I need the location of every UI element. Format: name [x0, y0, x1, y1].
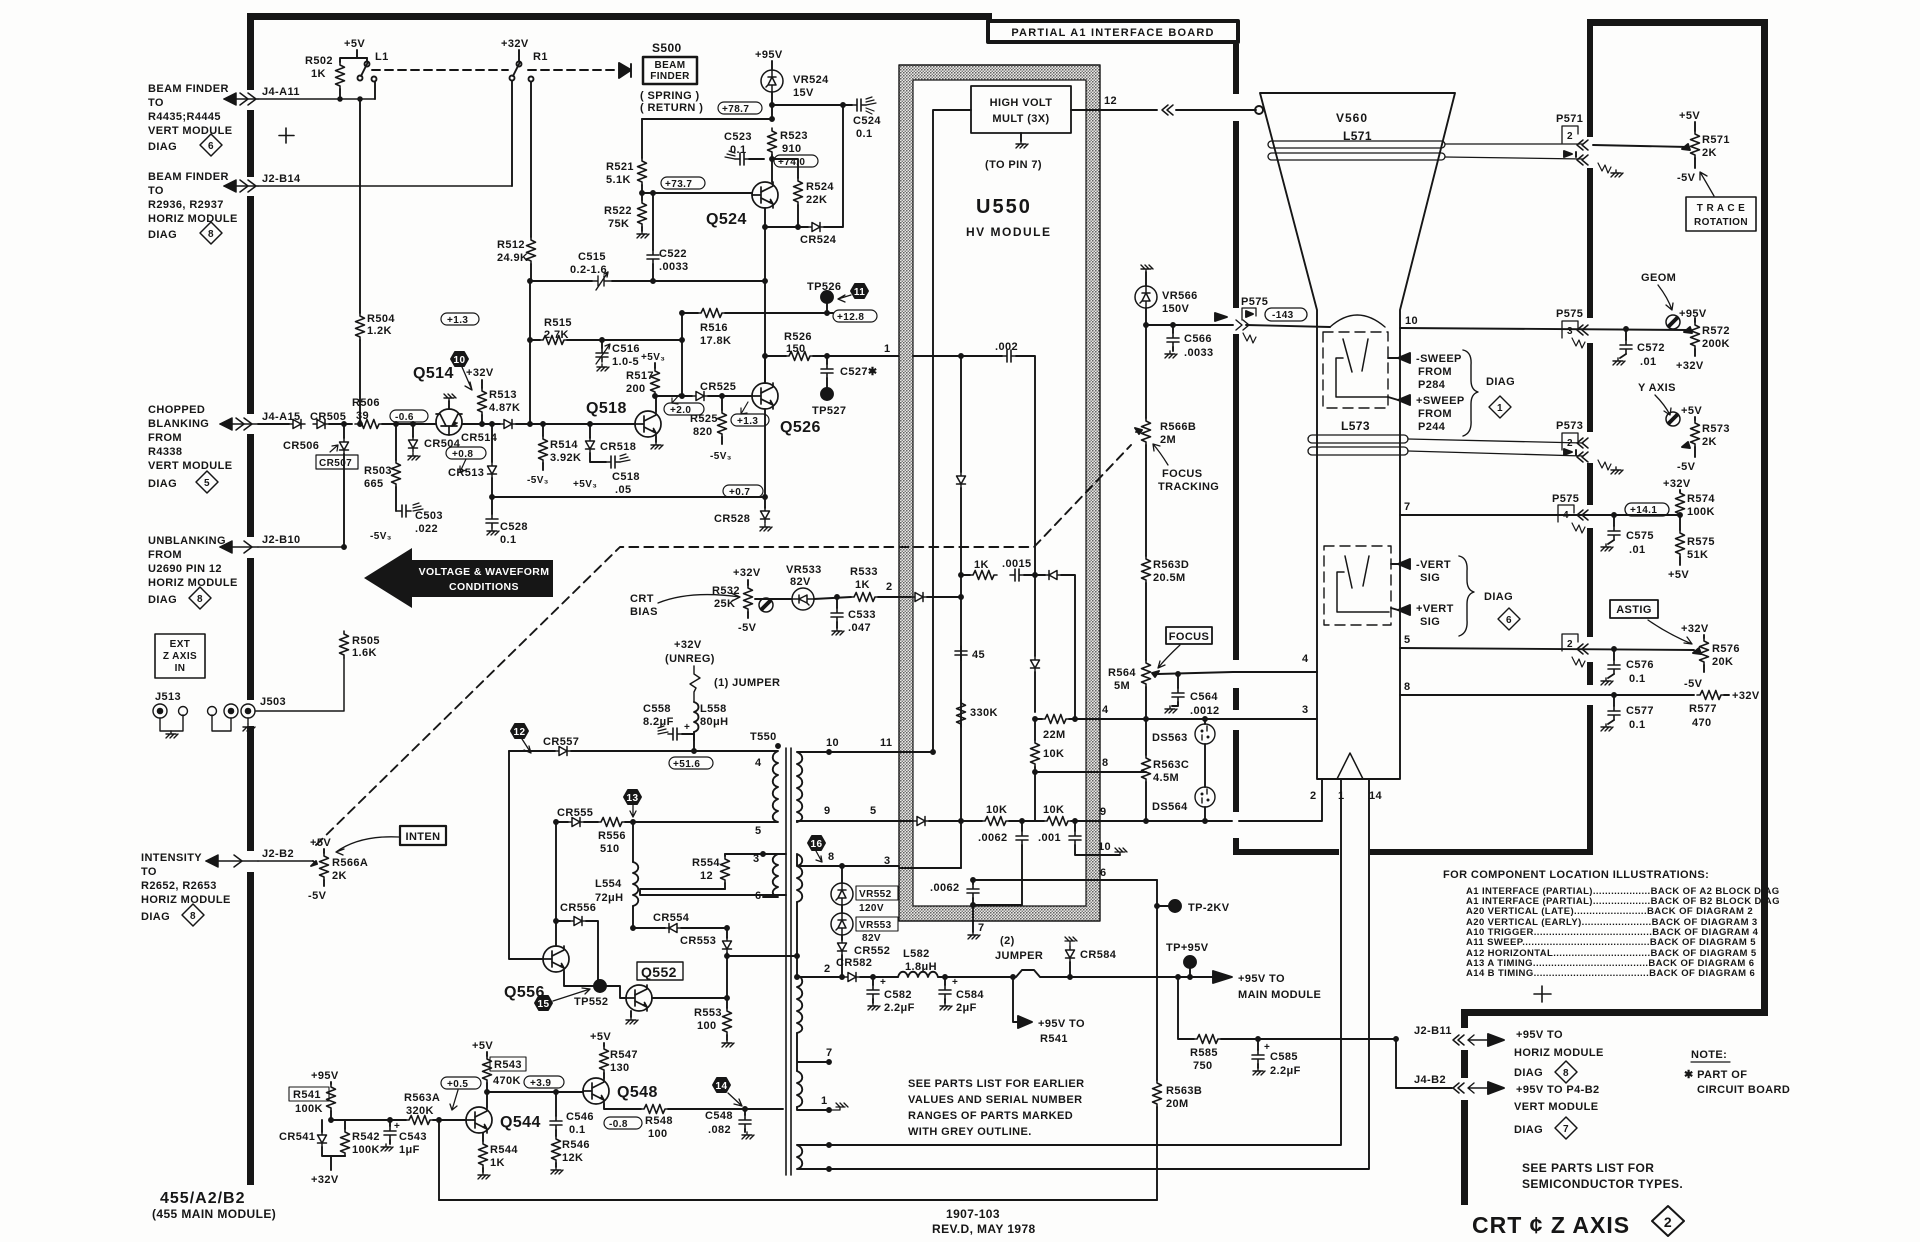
svg-text:-5V: -5V — [738, 622, 757, 634]
voltage oval +12.8 — [827, 310, 877, 323]
transistor Q544 — [466, 1107, 541, 1133]
svg-text:VALUES AND SERIAL NUMBER: VALUES AND SERIAL NUMBER — [908, 1094, 1082, 1106]
resistor R514 3.92K — [527, 422, 581, 486]
svg-text:A11 SWEEP.....................: A11 SWEEP...............................… — [1466, 937, 1756, 948]
diode into U550 pin 2 — [911, 593, 963, 602]
svg-text:R522: R522 — [604, 205, 632, 217]
svg-text:2: 2 — [886, 581, 893, 593]
svg-text:P575: P575 — [1241, 296, 1268, 308]
svg-text:REV.D, MAY 1978: REV.D, MAY 1978 — [932, 1222, 1036, 1236]
svg-text:PARTIAL A1 INTERFACE BOARD: PARTIAL A1 INTERFACE BOARD — [1011, 27, 1214, 39]
label box TRACE ROTATION — [1686, 172, 1756, 231]
resistor R522 75K — [604, 200, 649, 238]
svg-text:8.2μF: 8.2μF — [643, 716, 674, 728]
svg-text:TP526: TP526 — [807, 281, 841, 293]
svg-text:5M: 5M — [1114, 680, 1130, 692]
svg-text:SIG: SIG — [1420, 616, 1440, 628]
switch L1 — [358, 51, 389, 99]
resistor 330K — [957, 700, 998, 727]
svg-text:DIAG: DIAG — [1514, 1124, 1543, 1136]
svg-text:ASTIG: ASTIG — [1616, 604, 1652, 616]
svg-text:+5V₃: +5V₃ — [573, 479, 597, 490]
voltage oval +1.3 — [731, 402, 769, 427]
interior wire from HV mult left — [931, 110, 971, 754]
svg-text:.0033: .0033 — [659, 261, 689, 273]
diode CR553 — [680, 928, 732, 1008]
svg-text:0.1: 0.1 — [569, 1124, 586, 1136]
svg-text:470: 470 — [1692, 717, 1712, 729]
board edge: CRT area left bar segment 5 — [1233, 730, 1239, 812]
svg-text:CR507: CR507 — [319, 458, 352, 469]
svg-text:R4435;R4445: R4435;R4445 — [148, 111, 221, 123]
svg-text:+SWEEP: +SWEEP — [1416, 395, 1465, 407]
svg-text:100: 100 — [648, 1128, 668, 1140]
svg-text:100K: 100K — [295, 1103, 323, 1115]
svg-text:J2-B14: J2-B14 — [262, 173, 301, 185]
label box EXT Z AXIS IN — [155, 634, 205, 678]
diode CR555 — [556, 807, 598, 827]
capacitor .0062 b with ground pin 7 — [930, 880, 985, 939]
voltage oval +73.7 — [661, 177, 705, 190]
svg-text:.0015: .0015 — [1002, 558, 1032, 570]
wire J2-B2 to R566A — [258, 860, 313, 862]
svg-text:SEE PARTS LIST FOR EARLIER: SEE PARTS LIST FOR EARLIER — [908, 1078, 1084, 1090]
svg-text:VR566: VR566 — [1162, 290, 1198, 302]
svg-text:R571: R571 — [1702, 134, 1730, 146]
svg-text:1: 1 — [884, 343, 891, 355]
svg-text:R523: R523 — [780, 130, 808, 142]
arrows to vert sig labels — [1391, 556, 1520, 636]
svg-text:R566A: R566A — [332, 857, 368, 869]
svg-text:.001: .001 — [1038, 832, 1061, 844]
wire TP526 node down to R526 row — [826, 313, 828, 356]
svg-text:VERT MODULE: VERT MODULE — [148, 460, 232, 472]
svg-text:+51.6: +51.6 — [673, 759, 700, 770]
svg-text:T550: T550 — [750, 731, 777, 743]
svg-text:GEOM: GEOM — [1641, 272, 1676, 284]
svg-text:J4-B2: J4-B2 — [1414, 1074, 1446, 1086]
svg-text:R515: R515 — [544, 317, 572, 329]
svg-text:Q548: Q548 — [617, 1084, 658, 1101]
svg-text:2K: 2K — [332, 870, 347, 882]
svg-text:WITH GREY OUTLINE.: WITH GREY OUTLINE. — [908, 1126, 1032, 1138]
diode CR552 — [838, 935, 891, 979]
voltage oval +78.7 — [718, 102, 762, 115]
voltage oval +0.5 — [441, 1077, 481, 1110]
svg-text:BEAM FINDER: BEAM FINDER — [148, 171, 229, 183]
callout hex 10 — [451, 352, 472, 390]
svg-text:2.7K: 2.7K — [544, 329, 569, 341]
svg-text:-SWEEP: -SWEEP — [1416, 353, 1462, 365]
svg-text:0.1: 0.1 — [1629, 673, 1646, 685]
label: CHOPPED BLANKING FROM R4338 VERT MODULE — [148, 404, 232, 490]
capacitor C516 1.0-5 (variable) — [596, 340, 640, 371]
svg-text:0.1: 0.1 — [1629, 719, 1646, 731]
wire J4-A15 row — [258, 423, 289, 425]
svg-text:T R A C E: T R A C E — [1697, 203, 1745, 214]
svg-text:P571: P571 — [1556, 113, 1583, 125]
svg-text:2M: 2M — [1160, 434, 1176, 446]
svg-text:+95V TO: +95V TO — [1238, 973, 1285, 985]
registration cross bottom right — [1534, 986, 1551, 1002]
svg-text:CR555: CR555 — [557, 807, 593, 819]
svg-text:320K: 320K — [406, 1105, 434, 1117]
svg-text:HV MODULE: HV MODULE — [966, 225, 1052, 239]
capacitor C527 and TP527 — [812, 356, 878, 417]
svg-text:FOCUS: FOCUS — [1162, 468, 1203, 480]
svg-text:+32V: +32V — [501, 38, 529, 50]
svg-text:TO: TO — [148, 185, 164, 197]
label Y AXIS — [1638, 382, 1676, 415]
label: UNBLANKING FROM U2690 PIN 12 HORIZ MODULE — [148, 535, 238, 606]
capacitor C584 2uF — [939, 977, 984, 1014]
svg-text:+5V₃: +5V₃ — [641, 352, 665, 363]
resistor R577 470 — [1689, 690, 1760, 729]
svg-text:CR525: CR525 — [700, 381, 736, 393]
svg-text:R542: R542 — [352, 1131, 380, 1143]
svg-text:1K: 1K — [855, 579, 870, 591]
note SEE PARTS LIST FOR SEMICONDUCTOR TYPES — [1522, 1161, 1683, 1191]
voltage oval +14.1 — [1625, 503, 1669, 516]
svg-text:20K: 20K — [1712, 656, 1733, 668]
svg-text:L582: L582 — [903, 948, 930, 960]
svg-text:25K: 25K — [714, 598, 735, 610]
svg-text:P244: P244 — [1418, 421, 1446, 433]
wire +78.7 row — [642, 118, 772, 120]
resistor R541 100K (grey outline) — [289, 1070, 339, 1122]
svg-text:8: 8 — [208, 229, 214, 240]
svg-text:VOLTAGE & WAVEFORM: VOLTAGE & WAVEFORM — [419, 566, 550, 578]
resistor R512 24.9K — [497, 237, 536, 424]
wire CRT pin 2 to bias row — [1239, 779, 1322, 821]
svg-text:R563D: R563D — [1153, 559, 1189, 571]
wire x682 vertical — [681, 313, 683, 396]
svg-text:+78.7: +78.7 — [722, 104, 749, 115]
svg-text:C575: C575 — [1626, 530, 1654, 542]
svg-text:-VERT: -VERT — [1416, 559, 1451, 571]
capacitor C528 0.1 — [486, 495, 528, 546]
svg-text:U2690 PIN 12: U2690 PIN 12 — [148, 563, 222, 575]
svg-text:R1: R1 — [533, 51, 548, 63]
svg-text:HORIZ MODULE: HORIZ MODULE — [141, 894, 231, 906]
svg-text:R512: R512 — [497, 239, 525, 251]
capacitor C524 0.1 — [772, 97, 881, 140]
resistor R563A 320K — [404, 1092, 466, 1125]
svg-text:V560: V560 — [1336, 111, 1368, 125]
svg-text:20.5M: 20.5M — [1153, 572, 1186, 584]
voltage oval +0.7 — [723, 485, 763, 498]
switch R1 — [501, 38, 548, 82]
diamond diag 8 right — [1555, 1061, 1577, 1083]
svg-text:1907-103: 1907-103 — [946, 1207, 1000, 1221]
svg-text:9: 9 — [1100, 806, 1107, 818]
svg-text:.0012: .0012 — [1190, 705, 1220, 717]
svg-text:.0062: .0062 — [930, 882, 960, 894]
resistor R525 820 — [690, 396, 732, 462]
svg-text:L554: L554 — [595, 878, 622, 890]
svg-text:C546: C546 — [566, 1111, 594, 1123]
diamond diag 6 — [200, 134, 222, 156]
connector J4-B2 — [1394, 1037, 1504, 1094]
potentiometer R576 20K — [1681, 623, 1740, 690]
capacitor C522 .0033 — [647, 193, 689, 283]
capacitor C582 2.2uF — [867, 977, 915, 1014]
svg-text:C558: C558 — [643, 703, 671, 715]
capacitor C548 .082 — [705, 1109, 754, 1139]
svg-text:+1.3: +1.3 — [447, 315, 468, 326]
svg-text:8: 8 — [1563, 1068, 1569, 1079]
svg-text:NOTE:: NOTE: — [1691, 1049, 1727, 1061]
svg-text:17.8K: 17.8K — [700, 335, 731, 347]
connector J2-B11 — [1414, 1025, 1504, 1046]
svg-text:J4-A11: J4-A11 — [262, 86, 300, 98]
svg-text:BEAM FINDER: BEAM FINDER — [148, 83, 229, 95]
T550 secondary winding A — [797, 737, 933, 822]
board edge: outer top right horizontal — [1587, 19, 1768, 26]
svg-text:FOCUS: FOCUS — [1169, 631, 1210, 643]
svg-text:6: 6 — [755, 890, 762, 902]
svg-text:455/A2/B2: 455/A2/B2 — [160, 1190, 246, 1207]
callout hex 13 — [624, 790, 641, 817]
svg-text:TP527: TP527 — [812, 405, 846, 417]
resistor R543 470K (grey outline) — [472, 1040, 526, 1107]
svg-text:Q544: Q544 — [500, 1114, 541, 1131]
voltage oval -143 — [1265, 308, 1307, 321]
svg-text:VR553: VR553 — [859, 920, 892, 931]
wire to junction — [329, 422, 352, 426]
svg-text:4.5M: 4.5M — [1153, 772, 1179, 784]
resistor 10K a — [961, 804, 1044, 826]
resistor R585 750 — [1178, 977, 1396, 1072]
svg-text:22M: 22M — [1043, 729, 1066, 741]
board edge: right connector bar segment 1 — [1587, 19, 1593, 137]
potentiometer R573 2K — [1666, 405, 1730, 473]
transformer T550 core — [750, 731, 791, 1175]
svg-text:.047: .047 — [848, 622, 871, 634]
block: HIGH VOLT MULT (3X) — [971, 86, 1071, 133]
capacitor C566 .0033 — [1165, 325, 1214, 359]
svg-text:665: 665 — [364, 478, 384, 490]
svg-text:CIRCUIT BOARD: CIRCUIT BOARD — [1697, 1084, 1790, 1096]
diamond diag 7 right — [1555, 1117, 1577, 1139]
svg-text:+0.5: +0.5 — [447, 1079, 468, 1090]
svg-text:2: 2 — [1664, 1214, 1672, 1230]
T550 secondary winding B — [795, 851, 899, 958]
potentiometer R564 5M — [1108, 660, 1159, 719]
wire Q518 collector node — [653, 394, 692, 411]
svg-text:R505: R505 — [352, 635, 380, 647]
svg-text:2: 2 — [1567, 131, 1573, 142]
svg-text:8: 8 — [190, 911, 196, 922]
board edge: CRT area left bar segment 6 — [1233, 838, 1239, 854]
connector J513 — [153, 691, 238, 731]
svg-text:+95V TO: +95V TO — [1038, 1018, 1085, 1030]
resistor R554 12 — [692, 854, 786, 889]
board edge: right connector bar segment 6 — [1587, 662, 1593, 685]
arrows to sweep labels — [1388, 350, 1515, 436]
svg-text:P573: P573 — [1556, 420, 1583, 432]
board edge: right connector bar segment 4 — [1587, 463, 1593, 505]
svg-text:5: 5 — [204, 478, 210, 489]
svg-text:72μH: 72μH — [595, 892, 624, 904]
diamond diag 8b — [189, 587, 211, 609]
wire R1 left contact down to J2-B14 — [511, 81, 513, 186]
svg-text:330K: 330K — [970, 707, 998, 719]
groups appended below — [247, 13, 1768, 1205]
board edge: CRT area left bar segment 2 — [1233, 121, 1239, 308]
diode CR514 — [461, 420, 516, 445]
label pin 8 / wire to R577 — [1400, 681, 1694, 697]
label SPRING RETURN — [640, 90, 703, 114]
wire Q544 collector row to Q548 base — [487, 1090, 583, 1094]
svg-text:1K: 1K — [490, 1157, 505, 1169]
svg-text:3: 3 — [753, 853, 760, 865]
wire J2-B14 — [258, 185, 512, 187]
voltage oval +3.9 — [524, 1076, 564, 1089]
svg-text:R544: R544 — [490, 1144, 518, 1156]
svg-text:R566B: R566B — [1160, 421, 1196, 433]
svg-text:510: 510 — [600, 843, 620, 855]
svg-text:TP-2KV: TP-2KV — [1188, 902, 1230, 914]
svg-text:C584: C584 — [956, 989, 984, 1001]
vertical CR555 to Q556 — [554, 820, 558, 946]
svg-text:2.2μF: 2.2μF — [884, 1002, 915, 1014]
label GEOM — [1641, 272, 1676, 310]
svg-text:L573: L573 — [1341, 419, 1370, 433]
svg-text:SEE PARTS LIST FOR: SEE PARTS LIST FOR — [1522, 1161, 1654, 1175]
diode CR524 — [763, 105, 843, 246]
resistor R574 100K — [1663, 478, 1715, 530]
board edge: left bar segment 2 — [247, 110, 254, 177]
zener VR524 — [755, 49, 829, 121]
svg-text:DS564: DS564 — [1152, 801, 1188, 813]
svg-text:15V: 15V — [793, 87, 814, 99]
label FOCUS TRACKING — [1153, 444, 1219, 493]
connector P571 — [1556, 113, 1623, 177]
long bottom wire — [439, 1199, 1157, 1201]
svg-text:2: 2 — [1567, 438, 1573, 449]
svg-text:10: 10 — [1098, 841, 1111, 853]
svg-text:R2936, R2937: R2936, R2937 — [148, 199, 224, 211]
transistor Q524 — [706, 182, 778, 228]
document number 1907-103 REV D — [932, 1207, 1036, 1236]
label box FOCUS — [1158, 627, 1212, 668]
svg-text:82V: 82V — [790, 576, 811, 588]
svg-text:13: 13 — [627, 793, 639, 804]
board edge: left bar segment 4 — [247, 434, 254, 537]
svg-text:(TO PIN 7): (TO PIN 7) — [985, 159, 1042, 171]
resistor R575 51K — [1668, 530, 1715, 581]
board edge: CRT area left bar segment 1 — [1233, 44, 1239, 94]
svg-text:5.1K: 5.1K — [606, 174, 631, 186]
capacitor .001 — [1038, 821, 1127, 855]
svg-text:TP552: TP552 — [574, 996, 608, 1008]
svg-text:10K: 10K — [986, 804, 1007, 816]
svg-text:10K: 10K — [1043, 748, 1064, 760]
board edge: left bar segment 6 — [247, 872, 254, 1185]
banner arrow VOLTAGE & WAVEFORM CONDITIONS — [364, 548, 553, 608]
resistor R516 17.8K — [680, 309, 827, 348]
connector P573 — [1556, 420, 1623, 474]
svg-text:A20 VERTICAL (LATE)...........: A20 VERTICAL (LATE).....................… — [1466, 906, 1753, 917]
connector arrow J2-B2 — [206, 848, 294, 867]
svg-text:910: 910 — [782, 143, 802, 155]
label pin 3 / wire from U550 pin4 — [1144, 704, 1317, 721]
svg-text:+32V: +32V — [733, 567, 761, 579]
capacitor C572 .01 — [1613, 327, 1665, 368]
svg-text:S500: S500 — [652, 41, 682, 55]
neon DS564 — [1152, 744, 1215, 823]
diode CR556 — [556, 902, 598, 986]
resistor R504 1.2K — [356, 97, 396, 424]
svg-text:+1.3: +1.3 — [737, 416, 758, 427]
svg-text:(455 MAIN MODULE): (455 MAIN MODULE) — [152, 1207, 276, 1221]
wire Q526 collector up / R526 row — [765, 356, 786, 383]
capacitor C576 0.1 — [1601, 649, 1654, 685]
inductor L558 80uH — [694, 702, 729, 751]
svg-text:+14.1: +14.1 — [1630, 505, 1657, 516]
label box INTEN — [336, 826, 446, 855]
svg-text:FROM: FROM — [1418, 366, 1452, 378]
svg-text:J2-B2: J2-B2 — [262, 848, 294, 860]
board edge: lower right horizontal — [1461, 1009, 1768, 1016]
resistor 10K vertical — [1031, 719, 1065, 821]
svg-text:C572: C572 — [1637, 342, 1665, 354]
resistor R547 130 — [590, 1031, 638, 1078]
coil L573 — [1308, 435, 1408, 455]
svg-text:100K: 100K — [352, 1144, 380, 1156]
svg-text:5: 5 — [870, 805, 877, 817]
svg-text:3: 3 — [1302, 704, 1309, 716]
svg-text:R546: R546 — [562, 1139, 590, 1151]
resistor R502 1K — [305, 55, 367, 101]
wire Q526 emitter down to +0.7 row — [763, 409, 767, 499]
svg-text:8: 8 — [1404, 681, 1411, 693]
board edge: left bar segment 3 — [247, 196, 254, 414]
svg-text:7: 7 — [1563, 1124, 1569, 1135]
diamond 2 — [1652, 1206, 1684, 1236]
test point TP526 with hex 11 — [807, 281, 868, 315]
svg-text:CRT ¢ Z AXIS: CRT ¢ Z AXIS — [1472, 1212, 1630, 1238]
T550 primary winding lower (pins 3-6) — [725, 852, 778, 902]
svg-text:7: 7 — [1404, 501, 1411, 513]
svg-text:VERT MODULE: VERT MODULE — [148, 125, 232, 137]
svg-text:.01: .01 — [1640, 356, 1657, 368]
svg-text:22K: 22K — [806, 194, 827, 206]
wire to Q514 — [382, 423, 435, 425]
svg-text:CR505: CR505 — [310, 411, 346, 423]
svg-text:1K: 1K — [311, 68, 326, 80]
svg-text:R564: R564 — [1108, 667, 1136, 679]
svg-text:CR557: CR557 — [543, 736, 579, 748]
capacitor C515 0.2-1.6 (variable) row — [530, 251, 765, 290]
zener VR553 82V (grey outline) — [831, 905, 898, 944]
board edge: CRT area left bar segment 4 — [1233, 688, 1239, 710]
resistor R553 100 — [694, 1007, 734, 1047]
diode CR504 with ground — [408, 422, 461, 460]
svg-text:C527✱: C527✱ — [840, 366, 878, 378]
potentiometer R571 2K — [1593, 110, 1730, 184]
svg-text:CHOPPED: CHOPPED — [148, 404, 205, 416]
svg-text:+95V TO: +95V TO — [1516, 1029, 1563, 1041]
wire pin 8 row — [1035, 757, 1146, 772]
diode CR525 — [692, 381, 752, 401]
svg-text:TO: TO — [141, 866, 157, 878]
svg-text:CR584: CR584 — [1080, 949, 1117, 961]
ground J513 — [166, 731, 178, 738]
svg-text:R513: R513 — [489, 389, 517, 401]
svg-text:J2-B10: J2-B10 — [262, 534, 300, 546]
